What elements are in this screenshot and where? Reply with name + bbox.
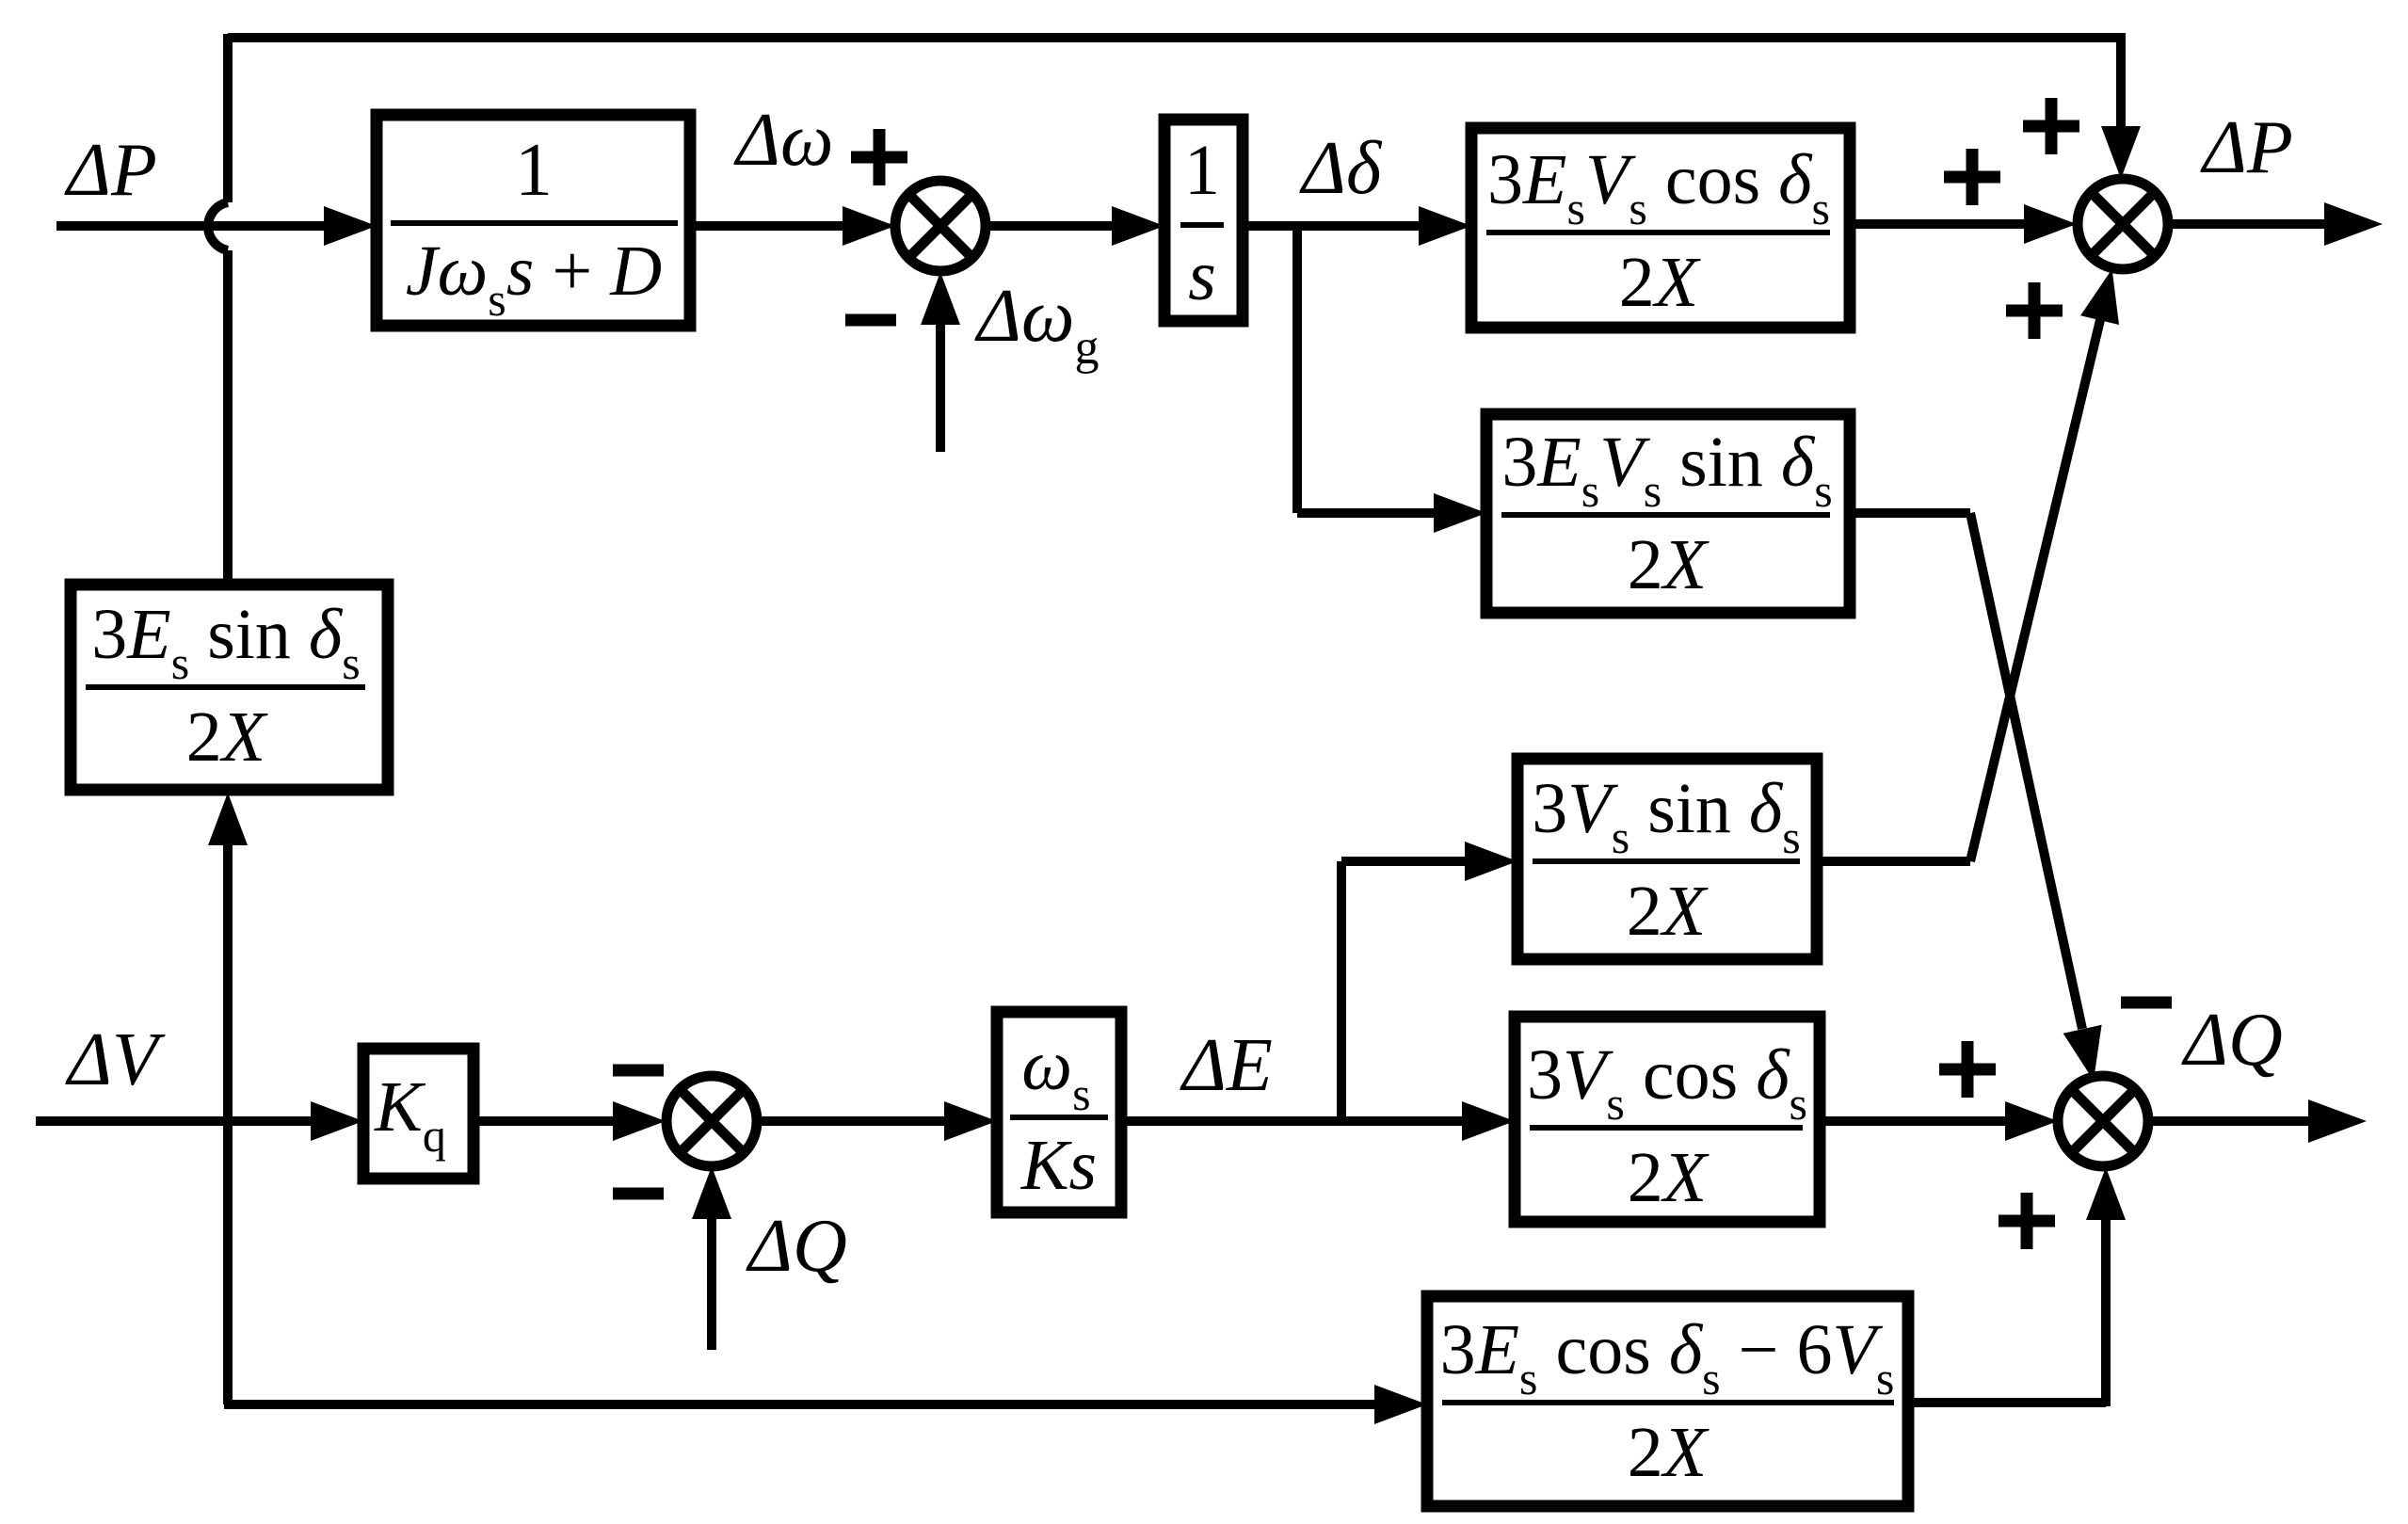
sign minus at S3 upper-left xyxy=(613,1065,664,1077)
wire G9 riser up into S4 xyxy=(2086,1167,2126,1406)
summing junction S1 (dw - dwg) xyxy=(895,181,986,271)
wire top feedback vertical drop into summing junction S2 xyxy=(2101,33,2141,179)
sign plus at S2 left xyxy=(1944,149,2000,205)
sign plus at S1 upper-left xyxy=(851,129,907,185)
wire dE branch vertical up xyxy=(1337,861,1346,1121)
wire G4 output horizontal stub xyxy=(1850,508,1970,518)
svg-text:Ks: Ks xyxy=(1020,1126,1097,1205)
svg-text:2X: 2X xyxy=(1628,525,1710,604)
block G3 gain 3EsVs·cos(ds)/2X xyxy=(1471,128,1850,328)
svg-text:ΔV: ΔV xyxy=(65,1019,166,1101)
wire G6 output horizontal stub xyxy=(1817,857,1970,866)
wire S3 output into block G7 xyxy=(757,1101,997,1141)
summing junction S2 (dP sum) xyxy=(2078,179,2168,269)
sign minus at S1 lower-left xyxy=(845,314,896,327)
node label dV input xyxy=(65,1019,166,1101)
svg-text:ΔQ: ΔQ xyxy=(2181,999,2283,1082)
svg-text:ΔQ: ΔQ xyxy=(746,1205,847,1288)
node label dw xyxy=(733,99,833,182)
wire left vertical from 3Es-sin block top up to top feedback line xyxy=(223,34,233,588)
wire G2 output (ddelta) into block G3 xyxy=(1243,206,1471,246)
block G4 gain 3EsVs·sin(ds)/2X xyxy=(1486,414,1850,613)
wire G4 output diagonal down into summing junction S4 xyxy=(1970,513,2102,1081)
sign plus at S4 bottom-left xyxy=(1999,1193,2055,1249)
wire left vertical from dV node down to bottom corner xyxy=(223,1121,233,1404)
wire G7 output (dE) into block G6b (3Vs cos) xyxy=(1121,1101,1515,1141)
summing junction S3 (Kq·dV - dQ) xyxy=(666,1076,757,1166)
wire dQ output arrow xyxy=(2149,1099,2367,1143)
svg-text:ΔP: ΔP xyxy=(64,129,157,212)
wire G6b output into summing junction S4 xyxy=(1820,1101,2058,1141)
svg-text:2X: 2X xyxy=(1619,243,1701,322)
svg-text:2X: 2X xyxy=(186,698,268,777)
block G9 gain (3Es·cos(ds)-6Vs)/2X xyxy=(1427,1296,1908,1506)
node label dE xyxy=(1180,1024,1273,1107)
svg-text:Δδ: Δδ xyxy=(1299,127,1383,210)
wire dE branch into block G6 (3Vs sin) xyxy=(1341,842,1517,881)
node label dP input xyxy=(64,129,157,212)
wire G9 output to riser corner xyxy=(1908,1398,2106,1407)
summing junction S4 (dQ sum) xyxy=(2058,1076,2148,1166)
wire dV input into block G8 (Kq) xyxy=(36,1101,363,1141)
sign plus at S2 top xyxy=(2023,98,2079,154)
wire G1 output (dw) to summing junction S1 xyxy=(690,206,895,246)
wire dP output arrow xyxy=(2169,202,2383,246)
node label dQ feedback xyxy=(746,1205,847,1288)
wire ddelta branch into block G4 xyxy=(1297,493,1486,533)
block G2 integrator 1/s xyxy=(1164,120,1243,321)
svg-text:ΔP: ΔP xyxy=(2200,106,2293,189)
block G1 transfer 1/(Jws*s+D) xyxy=(377,115,690,326)
svg-text:1: 1 xyxy=(515,129,553,212)
sign minus at S4 top-right xyxy=(2121,997,2172,1009)
block G5 gain 3Es·sin(ds)/2X xyxy=(71,585,388,790)
node label dwg xyxy=(974,275,1099,375)
wire left vertical from dV node up into 3Es-sin block xyxy=(208,793,248,1121)
wire dP input into block G1 xyxy=(56,206,377,246)
block G6 gain 3Vs·sin(ds)/2X xyxy=(1517,759,1817,959)
sign plus at S4 left xyxy=(1939,1041,1996,1098)
svg-text:2X: 2X xyxy=(1627,872,1709,951)
node label dQ output xyxy=(2181,999,2283,1082)
svg-text:1: 1 xyxy=(1184,131,1220,210)
wire dQ feedback arrow up into S3 xyxy=(692,1166,731,1350)
block G8 gain Kq xyxy=(363,1049,474,1179)
wire G6 output diagonal up into summing junction S2 xyxy=(1970,269,2119,861)
block G6b gain 3Vs·cos(ds)/2X xyxy=(1515,1017,1820,1222)
svg-text:2X: 2X xyxy=(1628,1138,1710,1217)
node label ddelta xyxy=(1299,127,1383,210)
wire S1 output into block G2 (1/s) xyxy=(986,206,1164,246)
svg-text:2X: 2X xyxy=(1628,1413,1710,1492)
wire bottom long line into block G9 xyxy=(224,1385,1427,1424)
wire dwg input arrow up into S1 xyxy=(921,272,960,452)
wire G3 output into summing junction S2 xyxy=(1850,204,2077,244)
node label dP output xyxy=(2200,106,2293,189)
sign minus at S3 lower-left xyxy=(613,1188,664,1200)
svg-text:s: s xyxy=(1188,236,1216,315)
wire G8 output into summing junction S3 xyxy=(474,1101,666,1141)
svg-text:ΔE: ΔE xyxy=(1180,1024,1273,1107)
svg-text:Δω: Δω xyxy=(733,99,833,182)
sign plus at S2 bottom xyxy=(2006,282,2063,339)
wire top feedback horizontal (node A to top-right summing junction) xyxy=(228,33,2121,42)
wire hop (left vertical jumps over dP input wire) xyxy=(208,202,228,250)
block G7 transfer ws/(K·s) xyxy=(997,1012,1121,1212)
wire ddelta branch vertical down xyxy=(1292,226,1302,513)
